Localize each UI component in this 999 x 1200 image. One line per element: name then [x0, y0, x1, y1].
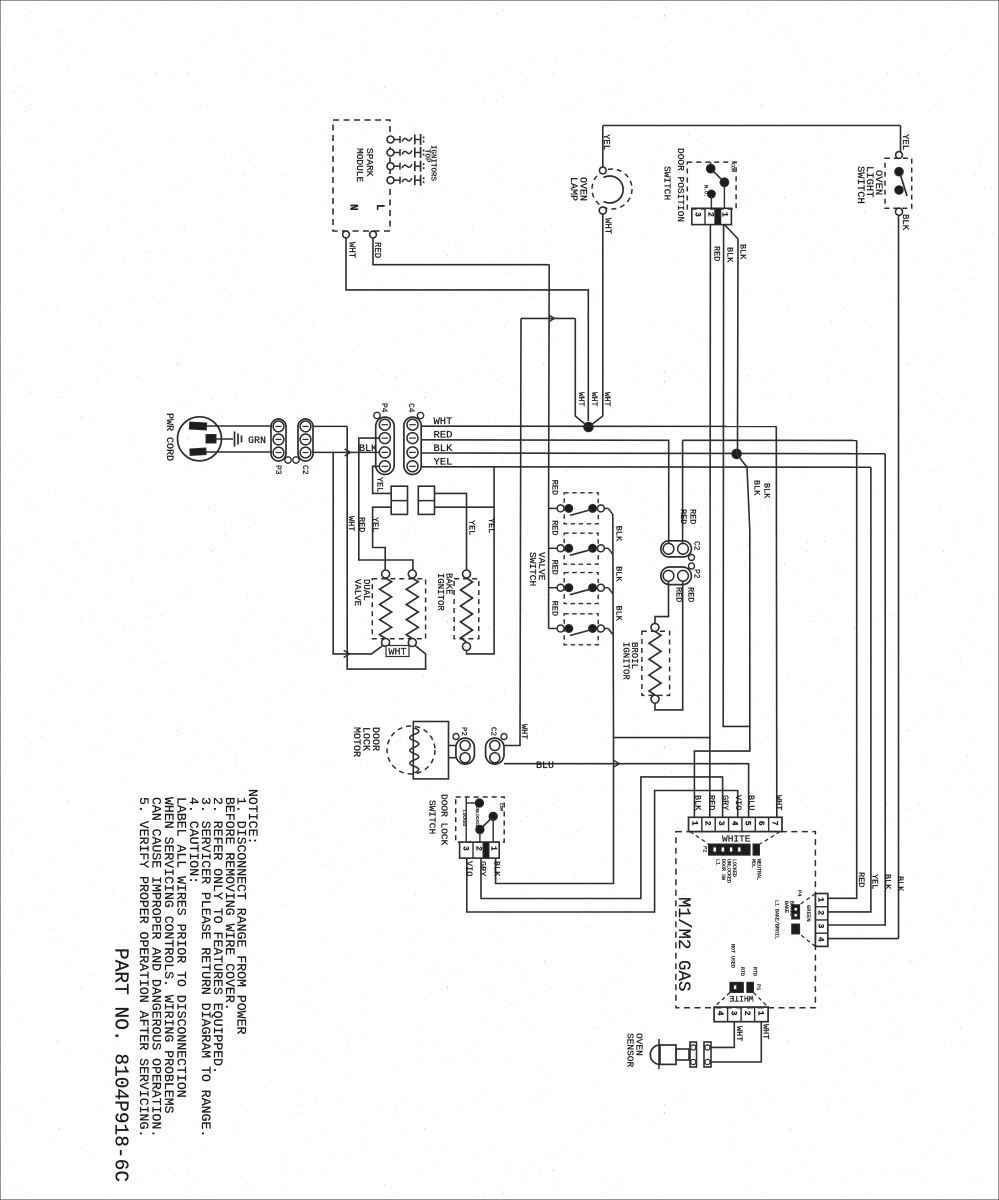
wire: top YEL run from oven lamp to oven light switch: [603, 125, 901, 127]
wire: WHT link bar y318: [521, 317, 575, 319]
bus wire YEL y467: [421, 466, 871, 468]
svg-text:SWITCH: SWITCH: [662, 166, 673, 200]
svg-text:RED: RED: [678, 509, 688, 524]
wire: BLK slant from junction to board 1-7 pin1: [694, 454, 749, 818]
svg-text:YEL: YEL: [370, 517, 380, 532]
bus wire WHT y426: [421, 425, 776, 427]
svg-text:NEUTRAL: NEUTRAL: [756, 859, 762, 880]
bus wire BLK y453: [421, 452, 885, 455]
svg-text:RED: RED: [712, 246, 722, 261]
oven light switch S3: [885, 158, 912, 208]
broil ignitor R2: [642, 631, 670, 695]
svg-text:BLK: BLK: [614, 566, 624, 582]
svg-text:DOOR POSITION: DOOR POSITION: [675, 148, 686, 222]
connector C2 power: [298, 419, 313, 461]
door position switch S1: [687, 162, 736, 209]
wire: cord line to P3 pin1: [206, 451, 272, 453]
svg-text:WHITE: WHITE: [722, 834, 751, 845]
svg-text:BLK: BLK: [693, 795, 703, 811]
broil circuit RED risers to RED bus: [668, 440, 670, 543]
svg-text:COM: COM: [498, 803, 504, 811]
svg-text:RED: RED: [550, 560, 560, 575]
svg-text:BLK: BLK: [614, 526, 624, 542]
svg-text:WHT: WHT: [389, 648, 407, 659]
svg-text:YEL: YEL: [467, 520, 477, 535]
valve switch BLK rail down to corner: [612, 514, 615, 738]
svg-text:N: N: [347, 204, 359, 211]
door position connector 3-2-1: [692, 208, 732, 224]
svg-text:IGNITOR: IGNITOR: [621, 642, 631, 680]
svg-text:BLK: BLK: [359, 444, 377, 455]
power cord PL1: [178, 417, 222, 461]
svg-text:2: 2: [703, 821, 712, 826]
svg-text:RTD: RTD: [739, 967, 745, 976]
svg-text:BLK: BLK: [752, 480, 762, 496]
wire: lamp top YEL drop: [602, 126, 604, 168]
valve switch cell 1: [564, 493, 598, 524]
svg-text:SWITCH: SWITCH: [527, 552, 538, 586]
svg-text:2: 2: [474, 846, 483, 851]
svg-text:3: 3: [693, 212, 702, 217]
svg-text:4: 4: [729, 821, 738, 826]
svg-text:2: 2: [706, 212, 715, 217]
dual valve left coil: [382, 570, 390, 578]
valve switch cell 4: [564, 614, 598, 645]
ignitor 2: [387, 149, 394, 156]
svg-text:GRN: GRN: [248, 436, 266, 447]
svg-text:RED: RED: [707, 795, 717, 810]
TOD box left: [391, 486, 407, 514]
svg-text:P1: P1: [755, 984, 762, 991]
svg-text:L1: L1: [715, 859, 721, 865]
valve switch cell 3: [564, 573, 598, 604]
wire: board pin 1 WHT to sensor: [711, 1022, 761, 1062]
dual valve DV1: [372, 579, 425, 639]
svg-text:RED: RED: [550, 601, 560, 616]
svg-text:1: 1: [755, 1011, 764, 1016]
svg-text:BLK: BLK: [492, 861, 502, 877]
board terminal strip 1-7: [689, 817, 783, 831]
svg-text:1: 1: [689, 821, 698, 826]
bus wire RED y440 right segment: [683, 439, 857, 441]
svg-text:BLK: BLK: [895, 876, 905, 892]
wire: BLK bus turn down x885 to board P4-3: [828, 454, 885, 925]
wire: WHT common drop x521 to door lock motor: [504, 318, 521, 745]
svg-text:GRY: GRY: [720, 795, 730, 810]
board bottom strip 4-3-2-1: [714, 1007, 768, 1022]
svg-text:GRY: GRY: [478, 861, 488, 876]
svg-text:IGNITOR: IGNITOR: [435, 573, 445, 611]
svg-text:IGNITORS: IGNITORS: [429, 145, 437, 182]
wire: YEL bus turn down x871 to board P4-2: [828, 467, 871, 912]
junction dot BLK bus / door switch: [732, 449, 742, 459]
valve switch cell 2: [564, 533, 598, 564]
svg-text:MOTOR: MOTOR: [350, 727, 361, 757]
svg-text:C2: C2: [489, 727, 497, 736]
svg-text:RTD: RTD: [752, 967, 758, 976]
svg-text:RED: RED: [686, 587, 696, 602]
junction dot WHT node: [584, 422, 594, 432]
svg-text:YEL: YEL: [375, 477, 385, 492]
svg-text:YEL: YEL: [486, 518, 496, 533]
svg-text:BLK: BLK: [900, 214, 910, 231]
valve switch VS1 rail RED: [548, 500, 550, 629]
svg-text:RED: RED: [550, 520, 560, 535]
board P2 connector bar: [709, 844, 751, 855]
board P4 connector right: [815, 894, 827, 947]
svg-text:4: 4: [816, 937, 825, 942]
wire: VIO from door lock switch to board 1-7 pin4: [467, 791, 738, 913]
svg-text:YEL: YEL: [900, 134, 910, 150]
wire: RED bus turn down x857 to board P4-1: [828, 440, 857, 898]
svg-text:RED: RED: [550, 480, 560, 495]
wire: door lock BLK riser: [496, 738, 614, 884]
svg-text:WHT: WHT: [602, 392, 611, 407]
svg-text:BLK: BLK: [725, 247, 735, 263]
wire: door position BLK down to BLK slant join: [723, 225, 750, 727]
wire: broil bottom return to P2 pin2: [655, 581, 683, 710]
svg-text:BLK: BLK: [614, 606, 624, 622]
svg-text:DOOR LOCK: DOOR LOCK: [439, 794, 450, 846]
svg-text:P2: P2: [702, 846, 709, 853]
svg-text:L: L: [373, 204, 385, 211]
wire: lamp bottom WHT drop to junction: [602, 214, 604, 416]
connector C4: [404, 417, 421, 474]
TOD box right: [418, 486, 434, 514]
wire: right TOD upper to bake ignitor: [435, 493, 467, 570]
svg-text:BLU: BLU: [746, 795, 756, 810]
bus wire RED y440 left segment: [421, 439, 669, 442]
svg-text:2: 2: [742, 1011, 751, 1016]
ignitor 4: [387, 177, 394, 184]
svg-text:2: 2: [816, 910, 825, 915]
board bottom strip trapezoid: [714, 993, 730, 1008]
svg-text:UNLOCKED: UNLOCKED: [474, 806, 480, 828]
wire: WHT chamfer into junction: [575, 318, 588, 427]
svg-text:LOCKED: LOCKED: [731, 859, 737, 877]
svg-text:BAKE: BAKE: [783, 901, 789, 913]
svg-text:PART NO. 8104P918-6C: PART NO. 8104P918-6C: [110, 948, 132, 1182]
wire: WHT bus turn down x776 to board 1-7 pin7: [775, 426, 778, 818]
door lock motor M1: [387, 726, 435, 774]
svg-text:WHT: WHT: [576, 392, 585, 407]
svg-text:5. VERIFY PROPER OPERATION AFT: 5. VERIFY PROPER OPERATION AFTER SERVICI…: [136, 797, 151, 1137]
svg-text:WHT: WHT: [346, 516, 356, 531]
svg-text:4: 4: [715, 1011, 724, 1016]
connector C2 motor: [486, 738, 504, 764]
wire: RED drop from L through buses to valve switch rail: [548, 265, 551, 500]
svg-text:WHT: WHT: [734, 1026, 744, 1041]
svg-text:DOOR SW: DOOR SW: [720, 859, 726, 880]
svg-text:WHT: WHT: [761, 1024, 771, 1039]
svg-text:GREEN: GREEN: [805, 905, 812, 922]
wire: WHT vertical x347 to dual-valve return: [347, 426, 425, 669]
svg-text:RED: RED: [688, 509, 698, 524]
connector P4: [376, 417, 395, 474]
svg-text:WHT: WHT: [519, 724, 529, 739]
svg-text:5: 5: [743, 821, 752, 826]
wire: oven light BLK into board P4-4: [828, 938, 899, 940]
wire: C2 pin3 to WHT down-run x347: [313, 425, 347, 427]
ground symbol and GRN: [216, 438, 233, 440]
svg-text:SWITCH: SWITCH: [854, 166, 866, 204]
svg-text:L1 BAKE/BROIL: L1 BAKE/BROIL: [774, 900, 780, 939]
bake ignitor R1: [454, 579, 479, 639]
svg-text:NOT USED: NOT USED: [730, 944, 736, 968]
svg-text:M1/M2 GAS: M1/M2 GAS: [673, 897, 693, 992]
door lock switch S2: [456, 797, 505, 842]
ignitor 3: [387, 163, 394, 170]
wire: YEL riser bake return to YEL bus: [467, 467, 495, 654]
board P1 connector bottom: [730, 982, 744, 992]
svg-text:SENSOR: SENSOR: [625, 1033, 636, 1068]
svg-text:3: 3: [716, 821, 725, 826]
svg-text:COM: COM: [730, 163, 736, 172]
svg-text:7: 7: [769, 821, 778, 826]
svg-text:LAMP: LAMP: [567, 177, 578, 201]
dual valve right coil: [408, 570, 416, 578]
wire: right TOD lower to YEL riser: [435, 506, 495, 508]
wire: P2 pin1 to broil ignitor top: [655, 581, 669, 623]
wire: door position BLK diagonal to bus junction: [724, 225, 738, 454]
wire: C2 pin1 BLK run to P4 pin3: [313, 451, 379, 453]
svg-text:3: 3: [461, 846, 470, 851]
spark module U1: [333, 120, 390, 231]
wire: oven light switch BLK long drop to board P4-4: [898, 215, 900, 939]
svg-text:VIO: VIO: [464, 861, 474, 876]
svg-text:N.O.: N.O.: [703, 185, 709, 197]
svg-text:3: 3: [728, 1011, 737, 1016]
svg-text:P2: P2: [692, 569, 701, 579]
ignitor 1: [387, 136, 394, 143]
svg-text:P4: P4: [796, 890, 803, 897]
wire: valve/doorlock BLK horizontal into RED riser: [614, 737, 710, 739]
wire: motor to P2: [449, 745, 457, 747]
svg-text:VIO: VIO: [733, 795, 743, 810]
svg-text:SWITCH: SWITCH: [427, 800, 438, 834]
connector P3: [271, 419, 286, 461]
svg-text:C2: C2: [692, 541, 701, 551]
svg-text:P4: P4: [379, 403, 388, 413]
board P4 black bar: [792, 905, 800, 919]
svg-text:P3: P3: [273, 465, 282, 475]
door lock connector 3-2-1: [460, 842, 500, 858]
svg-text:BLK: BLK: [762, 483, 772, 499]
svg-text:1: 1: [816, 897, 825, 902]
svg-text:WHITE: WHITE: [729, 993, 753, 1002]
svg-text:BLU: BLU: [536, 761, 554, 772]
board M1/M2 GAS box: [676, 832, 816, 1008]
svg-text:3: 3: [816, 924, 825, 929]
svg-text:1: 1: [719, 212, 728, 217]
wire: GRY from door lock switch to board 1-7 pin3: [481, 777, 723, 899]
board P2 trapezoid: [690, 832, 709, 844]
wire: oven light switch YEL drop: [900, 126, 902, 156]
connector C2 broil: [661, 541, 692, 557]
connector P2 motor: [456, 738, 475, 764]
svg-text:C2: C2: [300, 465, 309, 475]
svg-text:UNLOCKED: UNLOCKED: [726, 859, 732, 883]
svg-text:MODULE: MODULE: [354, 148, 365, 183]
svg-text:WHT: WHT: [589, 392, 598, 407]
wire: branch x333 down to left valve coil: [333, 452, 382, 654]
svg-text:YEL: YEL: [870, 874, 880, 889]
svg-text:WHT: WHT: [347, 242, 357, 259]
wire: door position RED down to board 1-7 pin2: [709, 225, 712, 818]
svg-text:BLK: BLK: [883, 874, 893, 890]
svg-text:C4: C4: [406, 403, 415, 413]
svg-text:MOL: MOL: [750, 859, 756, 868]
svg-text:1: 1: [489, 846, 498, 851]
svg-text:VALVE: VALVE: [352, 579, 362, 606]
wire: BLU from door lock motor to board 1-7 pin5: [504, 764, 749, 818]
svg-text:6: 6: [756, 821, 765, 826]
svg-text:BLK: BLK: [738, 244, 748, 260]
wire: board pin 2 WHT to sensor: [711, 1022, 734, 1048]
svg-text:YEL: YEL: [601, 134, 611, 150]
wire: cord line to P3 pin3: [206, 425, 272, 427]
oven lamp LAMP1: [592, 169, 632, 209]
svg-text:RED: RED: [856, 872, 866, 887]
svg-text:P2: P2: [459, 727, 467, 736]
label WHT at dual valve bottom: [386, 646, 409, 657]
svg-text:LOCKED: LOCKED: [461, 810, 467, 827]
svg-text:WHT: WHT: [603, 218, 613, 235]
svg-text:PWR CORD: PWR CORD: [163, 413, 174, 461]
board P4 trapezoid: [800, 894, 816, 905]
svg-text:WHT: WHT: [774, 795, 784, 810]
connector P2 broil: [661, 567, 692, 585]
